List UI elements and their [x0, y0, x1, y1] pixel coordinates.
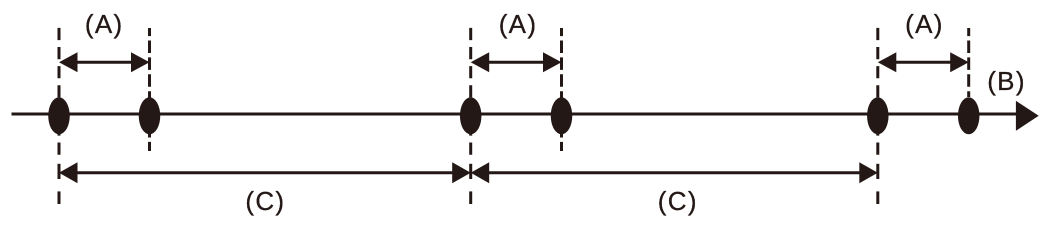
svg-text:(A): (A)	[85, 9, 124, 39]
dashed line 3 (at dot 3)	[469, 28, 472, 155]
svg-text:(B): (B)	[987, 66, 1026, 96]
svg-text:(A): (A)	[905, 9, 944, 39]
arrow C2 (double-headed between line 3 and line 5)	[471, 162, 878, 183]
dot 3	[460, 97, 482, 134]
arrow C1 (double-headed between line 1 and line 3)	[59, 162, 471, 183]
dot 5	[867, 97, 889, 134]
dashed line 6 (at dot 6)	[967, 28, 970, 97]
arrow A1 (double-headed between line 1 and line 2)	[59, 52, 150, 72]
dashed line 5 (at dot 5)	[876, 28, 879, 155]
dot 2	[139, 97, 161, 134]
svg-text:(A): (A)	[499, 9, 538, 39]
dot 1	[48, 97, 70, 134]
dashed line 4 (at dot 4)	[560, 28, 563, 151]
svg-text:(C): (C)	[245, 186, 285, 216]
arrow A3 (double-headed between line 5 and line 6)	[878, 52, 969, 72]
dashed line 1 (at dot 1)	[58, 28, 61, 155]
timeline arrowhead (B arrow)	[1016, 101, 1039, 131]
svg-text:(C): (C)	[658, 186, 698, 216]
dot 4	[551, 97, 573, 134]
dashed line 2 (at dot 2)	[148, 28, 151, 151]
arrow A2 (double-headed between line 3 and line 4)	[471, 52, 562, 72]
dot 6	[958, 97, 980, 134]
timeline main line	[12, 113, 1018, 116]
